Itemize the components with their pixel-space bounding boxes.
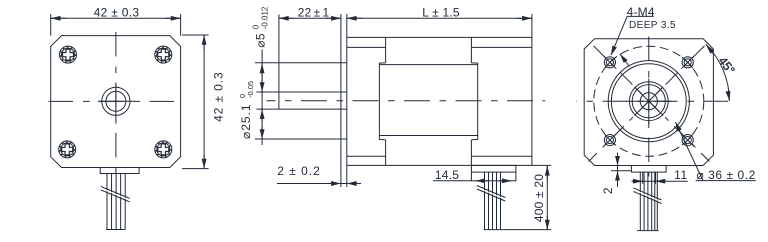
shaft <box>279 92 347 109</box>
dimension 42±0.3 right: line and arrows <box>203 35 205 169</box>
center crosshair <box>98 84 135 119</box>
horizontal centerline rear <box>576 100 737 102</box>
svg-text:-0.05: -0.05 <box>246 81 255 98</box>
lead wires front view <box>106 174 125 230</box>
front flange outline <box>51 36 181 168</box>
end-bell joints top <box>386 37 472 63</box>
svg-text:14.5: 14.5 <box>435 168 459 182</box>
connector block rear view <box>631 166 666 173</box>
connector block front view <box>100 168 139 174</box>
svg-text:⌀ 36 ± 0.2: ⌀ 36 ± 0.2 <box>697 168 756 182</box>
screw top-left <box>60 46 77 63</box>
45 degree arc <box>706 44 730 101</box>
dia 5 bottom arrow <box>261 110 263 123</box>
horizontal centerline <box>49 100 185 102</box>
diagonal centerline TR-BL <box>589 41 710 162</box>
bolt circle <box>594 46 704 156</box>
dimension 42±0.3 right: extension lines <box>182 35 209 169</box>
front face extension down <box>346 165 348 187</box>
svg-text:-0.012: -0.012 <box>261 6 270 29</box>
shaft centerline <box>267 100 546 102</box>
hub crosshair <box>626 79 672 125</box>
svg-text:2: 2 <box>601 187 615 194</box>
end-bell joints bottom <box>386 140 472 165</box>
svg-text:45°: 45° <box>716 54 738 77</box>
dimension 42±0.3 top: extension lines <box>51 14 181 36</box>
shaft hole circle <box>106 91 126 111</box>
rear connector block <box>471 165 516 180</box>
boss extension lines <box>255 63 341 139</box>
housing circle inner <box>611 64 686 139</box>
front face extension up <box>346 14 348 37</box>
svg-text:⌀5: ⌀5 <box>254 33 268 48</box>
housing circle outer <box>608 61 689 142</box>
dimension 2±0.2 line <box>277 183 361 185</box>
dimension 14.5 line and arrows <box>433 180 511 182</box>
diameter dims vertical line <box>261 50 263 146</box>
dimension 400±20 line and arrows <box>546 166 548 230</box>
dia 5 top arrow <box>261 79 263 92</box>
svg-text:22 ± 1: 22 ± 1 <box>298 5 330 19</box>
boss face / extension vertical <box>340 14 342 187</box>
lead wires rear view <box>637 172 659 231</box>
svg-text:2 ± 0.2: 2 ± 0.2 <box>277 164 321 178</box>
chamfer lines top <box>347 46 532 48</box>
4-M4 text <box>627 5 676 31</box>
wire break rear view <box>634 188 662 204</box>
dimension 42±0.3 top: line and arrows <box>51 17 181 19</box>
diagonal centerline TL-BR <box>589 41 710 162</box>
dimension 11 <box>632 168 688 184</box>
screw bottom-left <box>59 141 76 158</box>
bolt circle solid arcs at holes <box>605 57 693 145</box>
vertical centerline rear <box>648 31 650 177</box>
dimension L±1.5 line and arrows <box>347 17 532 19</box>
dia 25.1 bottom arrow <box>261 126 263 139</box>
wire break side view <box>477 186 505 202</box>
svg-text:11: 11 <box>674 168 688 182</box>
side view body outline <box>347 37 532 165</box>
bottom edge extension right <box>532 164 551 166</box>
hub circles <box>629 82 668 121</box>
stator stack <box>379 63 477 140</box>
lead wires side view <box>484 172 503 230</box>
wire end extension right <box>503 229 551 231</box>
shaft end extension line <box>278 15 280 93</box>
dia36 text <box>696 168 756 182</box>
svg-text:42 ± 0.3: 42 ± 0.3 <box>94 5 140 19</box>
mounting hole TL <box>604 57 615 68</box>
wire break front view <box>101 186 130 202</box>
mounting hole TR <box>682 57 693 68</box>
vertical centerline <box>115 30 117 177</box>
svg-text:42 ± 0.3: 42 ± 0.3 <box>212 71 226 121</box>
shaft diameter extension lines <box>257 92 279 109</box>
rear flange outline <box>584 39 713 166</box>
dimension 22±1 line and arrows <box>279 17 341 19</box>
mounting hole BR <box>682 135 693 146</box>
dia 25.1 tolerance text <box>238 81 255 139</box>
screw bottom-right <box>155 141 172 158</box>
svg-text:⌀25.1: ⌀25.1 <box>239 103 253 139</box>
svg-text:400 ± 20: 400 ± 20 <box>532 174 546 222</box>
svg-text:0: 0 <box>252 24 261 29</box>
chamfer lines bottom <box>347 155 532 157</box>
pilot boss <box>341 63 347 139</box>
dia 5 tolerance text <box>252 6 270 48</box>
bolt circle arrow mark <box>620 54 630 66</box>
mounting hole BL <box>604 135 615 146</box>
svg-text:DEEP 3.5: DEEP 3.5 <box>629 20 676 31</box>
rear face extension up <box>531 14 533 37</box>
4-M4 leader <box>611 16 627 55</box>
svg-text:L ± 1.5: L ± 1.5 <box>422 5 460 19</box>
screw top-right <box>155 46 172 63</box>
dia 36 leader <box>676 122 704 181</box>
dimension 2 rear <box>601 153 631 195</box>
dia 25.1 top arrow <box>261 64 263 77</box>
pilot circle <box>102 87 130 115</box>
hole crosshair marks <box>604 56 695 147</box>
